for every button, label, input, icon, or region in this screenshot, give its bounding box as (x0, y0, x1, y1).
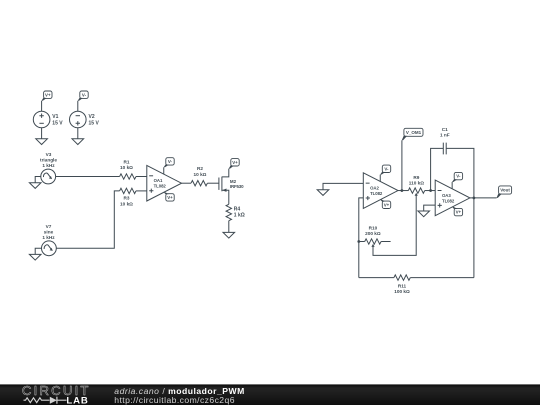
svg-text:V-: V- (456, 174, 461, 179)
svg-text:V-: V- (82, 92, 87, 97)
svg-text:V-: V- (168, 159, 173, 164)
svg-text:TL082: TL082 (370, 191, 383, 196)
svg-text:V3: V3 (46, 152, 52, 157)
svg-text:V+: V+ (167, 195, 173, 200)
svg-text:V+: V+ (45, 92, 51, 97)
svg-text:R10: R10 (369, 225, 378, 230)
svg-text:100 kΩ: 100 kΩ (394, 289, 410, 294)
svg-text:200 kΩ: 200 kΩ (365, 231, 381, 236)
svg-text:110 kΩ: 110 kΩ (409, 181, 424, 186)
svg-text:LAB: LAB (66, 395, 87, 405)
svg-text:1 nF: 1 nF (440, 133, 450, 138)
svg-text:IRF530: IRF530 (230, 184, 244, 189)
svg-text:TL082: TL082 (442, 198, 455, 203)
svg-text:C1: C1 (442, 127, 448, 132)
svg-text:V+: V+ (384, 202, 390, 207)
svg-text:V-: V- (384, 166, 389, 171)
svg-text:10 kΩ: 10 kΩ (194, 172, 207, 177)
svg-text:R1: R1 (124, 159, 130, 164)
svg-text:R11: R11 (398, 283, 407, 288)
svg-text:triangle: triangle (40, 158, 57, 163)
svg-text:Vout: Vout (500, 188, 510, 193)
svg-text:R2: R2 (197, 166, 203, 171)
svg-text:1 kHz: 1 kHz (42, 235, 55, 240)
svg-text:1 kΩ: 1 kΩ (234, 212, 245, 218)
svg-text:10 kΩ: 10 kΩ (120, 202, 133, 207)
svg-text:V1: V1 (52, 114, 58, 120)
svg-text:sine: sine (44, 229, 54, 234)
svg-text:TL082: TL082 (154, 184, 167, 189)
svg-text:10 kΩ: 10 kΩ (120, 165, 133, 170)
svg-text:15 V: 15 V (52, 121, 63, 127)
svg-text:V_OM1: V_OM1 (406, 130, 422, 135)
svg-text:R9: R9 (413, 175, 419, 180)
svg-text:OA1: OA1 (154, 178, 163, 183)
svg-text:V+: V+ (232, 160, 238, 165)
svg-text:OA2: OA2 (370, 185, 379, 190)
svg-text:OA3: OA3 (442, 193, 451, 198)
svg-text:15 V: 15 V (89, 121, 100, 127)
svg-text:R3: R3 (124, 196, 130, 201)
svg-text:1 kHz: 1 kHz (42, 163, 55, 168)
svg-text:V+: V+ (456, 210, 462, 215)
svg-text:V2: V2 (89, 114, 95, 120)
svg-text:http://circuitlab.com/cz6c2q6: http://circuitlab.com/cz6c2q6 (114, 395, 235, 405)
svg-text:V7: V7 (46, 224, 52, 229)
